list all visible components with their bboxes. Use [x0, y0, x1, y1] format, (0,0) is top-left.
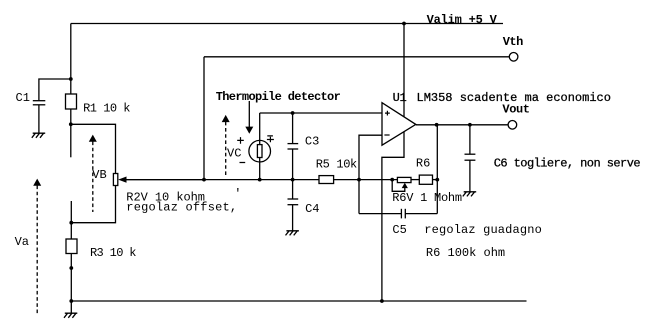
wire plus input top	[260, 112, 382, 114]
wire Vth vertical	[203, 57, 205, 180]
node junction C1 branch	[69, 77, 73, 81]
svg-text:R1 10 k: R1 10 k	[83, 101, 130, 115]
wire VC top	[259, 113, 261, 145]
capacitor C6	[469, 125, 471, 154]
capacitor C3	[292, 113, 294, 144]
svg-text:C3: C3	[305, 135, 319, 149]
arrow Va dashed	[36, 186, 38, 314]
node junction rail to U1 supply	[402, 22, 406, 26]
svg-text:U1: U1	[393, 91, 407, 105]
ground below C1	[32, 133, 45, 138]
svg-text:regolaz guadagno: regolaz guadagno	[424, 223, 542, 237]
wire stub below R1 junction	[70, 124, 72, 157]
svg-text:R6 100k ohm: R6 100k ohm	[426, 246, 505, 260]
svg-text:C4: C4	[305, 202, 319, 216]
node junction below R1	[69, 122, 73, 126]
wire R2V wiper arrow	[126, 179, 204, 181]
wire C5 left	[359, 213, 401, 215]
capacitor C4	[292, 180, 294, 199]
svg-text:Va: Va	[15, 235, 29, 249]
resistor R6	[419, 175, 432, 184]
node junction bottom left	[69, 299, 73, 303]
svg-text:R6V 1 Mohm: R6V 1 Mohm	[392, 191, 462, 205]
node junction R6 right	[435, 178, 439, 182]
wire branch to R2V top	[71, 124, 116, 173]
svg-text:R6: R6	[416, 157, 430, 171]
wire VC bottom	[259, 158, 261, 180]
wire R6V to R6	[411, 179, 419, 181]
node junction minus loop	[357, 178, 361, 182]
polarity plus VC left	[237, 137, 245, 162]
source VC thermopile	[249, 140, 271, 162]
capacitor C1	[33, 100, 46, 102]
wire feedback vertical	[436, 125, 438, 214]
svg-text:VC: VC	[227, 146, 241, 160]
capacitor C5	[400, 209, 402, 219]
svg-text:regolaz offset,: regolaz offset,	[126, 200, 237, 214]
svg-text:C1: C1	[16, 91, 30, 105]
svg-text:': '	[234, 187, 241, 201]
svg-text:C5: C5	[392, 223, 406, 237]
ground bottom left	[64, 301, 77, 318]
node junction U1 ground	[380, 299, 384, 303]
ground below C6	[463, 192, 476, 197]
node junction VC bottom	[258, 178, 262, 182]
svg-text:VB: VB	[92, 168, 106, 182]
resistor R5	[319, 176, 334, 184]
polarity mark VC source top	[267, 136, 274, 142]
wire stub above R3	[70, 201, 72, 239]
wire bottom ground rail	[71, 300, 526, 302]
terminal Vth	[509, 53, 518, 62]
svg-text:Valim +5 V: Valim +5 V	[427, 13, 498, 27]
op-amp U1	[382, 103, 416, 146]
wire C5 right	[405, 213, 437, 215]
node junction R6V left	[390, 178, 394, 182]
wire Valim +5V top rail	[71, 23, 503, 25]
wire output	[416, 124, 508, 126]
node junction output feedback	[435, 123, 439, 127]
terminal Vout	[508, 121, 517, 130]
node junction C6 tap	[468, 123, 472, 127]
arrow VB dashed	[92, 142, 94, 213]
wire U1 V+ supply	[403, 24, 405, 117]
node junction C3 top	[291, 111, 295, 115]
svg-text:C6 togliere, non serve: C6 togliere, non serve	[494, 156, 641, 170]
svg-text:R3 10 k: R3 10 k	[90, 246, 136, 260]
node junction below R3	[69, 266, 73, 270]
wire left drop from rail	[70, 24, 72, 80]
wire R5 to minus node	[334, 179, 398, 181]
wire R2V bottom return	[71, 186, 115, 223]
node junction Vth tap	[202, 178, 206, 182]
wire U1 V- to ground	[382, 132, 404, 302]
resistor R3	[66, 239, 77, 254]
resistor R1	[66, 94, 77, 109]
arrow thermopile label pointer	[248, 101, 250, 128]
svg-text:Vth: Vth	[503, 35, 523, 49]
wire R6 to feedback	[433, 179, 438, 181]
wire R1 top	[70, 79, 72, 94]
wire Vth horizontal	[204, 56, 509, 58]
svg-text:Vout: Vout	[502, 103, 529, 117]
wire C1 branch	[39, 79, 71, 100]
ground below C4	[286, 231, 299, 236]
node junction above R3	[69, 221, 73, 225]
wire minus input	[359, 135, 382, 213]
arrow VC dashed	[225, 122, 227, 177]
svg-text:R5 10k: R5 10k	[316, 157, 357, 171]
node junction C3/C4	[291, 178, 295, 182]
wire R3 bottom	[70, 254, 72, 302]
svg-text:Thermopile detector: Thermopile detector	[216, 90, 341, 104]
wire R1 bottom	[70, 109, 72, 124]
potentiometer R2V	[113, 174, 117, 186]
wire mid node left segment	[126, 179, 319, 181]
potentiometer R6V	[397, 177, 411, 182]
